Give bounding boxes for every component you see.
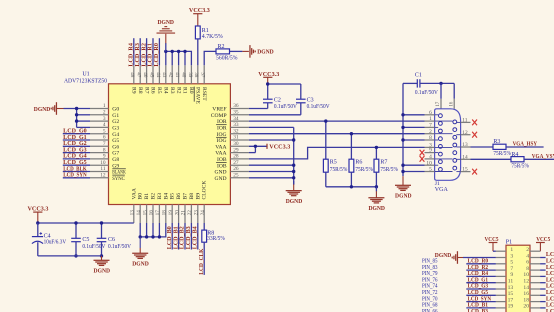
svg-text:IOR: IOR (217, 126, 227, 132)
svg-text:6: 6 (429, 110, 432, 116)
svg-text:RSET: RSET (201, 87, 207, 101)
pin 10 stub (G9) (90, 164, 109, 166)
svg-text:VAA: VAA (131, 188, 137, 199)
VGA pin 10 stub (425, 164, 435, 166)
ground DGND (chip right) (286, 190, 302, 192)
junction (158, 235, 161, 238)
resistor R4 (511, 157, 524, 162)
svg-text:IOG: IOG (217, 132, 227, 138)
svg-text:B8: B8 (189, 193, 195, 200)
svg-text:GND: GND (214, 176, 226, 182)
svg-text:PIN_85: PIN_85 (422, 259, 438, 265)
wire drop (146, 223, 148, 237)
svg-text:LCD_SYN: LCD_SYN (546, 290, 554, 296)
pin 33 stub (IOR) (230, 126, 249, 128)
wire ground to VGA pin (403, 164, 425, 166)
wire pin 45 net LCD_R1 (152, 38, 154, 65)
junction (tap) (350, 132, 353, 135)
svg-text:R5: R5 (330, 159, 337, 165)
wire ground to VGA pin (403, 114, 425, 116)
svg-text:0.1uF/50V: 0.1uF/50V (415, 90, 439, 96)
wire ground rail (right of chip) (293, 127, 295, 184)
svg-text:LCD_G2: LCD_G2 (546, 271, 554, 277)
wire ground B0-B4 (139, 223, 141, 237)
svg-text:16: 16 (149, 210, 155, 216)
svg-text:19: 19 (168, 210, 174, 216)
svg-text:7: 7 (429, 123, 432, 129)
svg-text:17: 17 (155, 210, 161, 216)
resistor R8 (203, 223, 205, 230)
pin 4 stub (G3) (90, 126, 109, 128)
wire ground bus pins 43-39 (166, 51, 192, 65)
wire DGND to P1 pin 3 (463, 257, 496, 259)
pin 1 stub (G0) (90, 108, 109, 110)
svg-text:2: 2 (526, 247, 529, 253)
svg-text:GND: GND (214, 170, 226, 176)
svg-text:R2: R2 (175, 87, 181, 94)
ground DGND (VGA) (395, 184, 411, 186)
junction (183, 50, 186, 53)
wire DGND to pin 1 (64, 108, 91, 110)
svg-text:G1: G1 (112, 113, 119, 119)
svg-text:3: 3 (103, 116, 106, 122)
svg-text:36: 36 (233, 103, 239, 109)
svg-text:LCD_R2: LCD_R2 (468, 265, 489, 271)
svg-text:75R/5%: 75R/5% (493, 151, 511, 157)
wire net LCD_R2 to P1 (466, 269, 496, 271)
wire VCC rail to C3 (268, 83, 301, 85)
svg-text:G0: G0 (112, 107, 119, 113)
svg-text:B6: B6 (176, 193, 182, 200)
svg-text:LCD_B0: LCD_B0 (546, 296, 554, 302)
wire net LCD_G4 to pin 9 (63, 158, 90, 160)
svg-text:R4: R4 (163, 87, 169, 94)
junction (100, 254, 103, 257)
wire pin 23 net LCD_B4 (197, 223, 199, 250)
junction (tap) (375, 146, 378, 149)
svg-text:LCD_B2: LCD_B2 (546, 303, 554, 309)
wire pin 44 net LCD_R0 (158, 38, 160, 65)
svg-text:LCD_G0: LCD_G0 (63, 129, 87, 135)
wire pin 19 net LCD_B0 (171, 223, 173, 250)
svg-text:1: 1 (510, 247, 513, 253)
junction (292, 176, 295, 179)
pin 30 stub (VAA) (230, 145, 249, 147)
svg-text:LCD_B3: LCD_B3 (186, 226, 192, 249)
pin 17 stub (B3) (158, 205, 160, 224)
capacitor C5 (75, 223, 77, 238)
ground DGND (under B pins) (132, 252, 148, 254)
pin 25 stub (GND) (230, 177, 249, 179)
junction (401, 164, 404, 167)
junction (171, 50, 174, 53)
svg-text:14: 14 (136, 210, 142, 216)
svg-text:B7: B7 (183, 193, 189, 200)
svg-text:R5: R5 (156, 87, 162, 94)
no-connect X (420, 150, 425, 156)
no-connect X (472, 132, 477, 138)
svg-text:46: 46 (142, 72, 148, 78)
svg-text:C2: C2 (274, 97, 281, 103)
capacitor C3 (296, 98, 306, 100)
wire VCC5 to P1 pin 2 (530, 250, 540, 252)
svg-text:17: 17 (508, 297, 514, 303)
svg-text:11: 11 (508, 279, 514, 285)
pin 5 stub (G4) (90, 133, 109, 135)
svg-text:6: 6 (526, 260, 529, 266)
pin 38 stub (PSAVE) (197, 65, 199, 84)
VGA pin holes (left column) (439, 114, 443, 118)
svg-text:13: 13 (462, 142, 468, 148)
pin 27 stub (IOB) (230, 164, 249, 166)
ground DGND (R5-R7) stem (375, 187, 377, 192)
svg-text:4: 4 (429, 154, 432, 160)
svg-text:LCD_G1: LCD_G1 (63, 135, 87, 141)
svg-text:G8: G8 (112, 157, 119, 163)
svg-text:LCD_R1: LCD_R1 (546, 252, 554, 258)
svg-text:0.1uF/50V: 0.1uF/50V (82, 244, 106, 250)
wire net LCD_BLK to pin 11 (63, 171, 90, 173)
wire pin 18 drop (140, 223, 166, 237)
svg-text:DGND: DGND (286, 199, 303, 205)
pin 29 stub (VAA) (230, 152, 249, 154)
svg-text:VCC3.3: VCC3.3 (269, 145, 290, 151)
svg-text:30: 30 (233, 141, 239, 147)
junction (74, 254, 77, 257)
svg-text:LCD_R0: LCD_R0 (468, 259, 489, 265)
svg-text:21: 21 (181, 210, 187, 216)
VGA pin 4 stub (425, 158, 435, 160)
pin 9 stub (G8) (90, 158, 109, 160)
svg-text:P1: P1 (506, 240, 512, 246)
svg-text:22: 22 (187, 210, 193, 216)
svg-text:45: 45 (148, 72, 154, 78)
resistor R3 (493, 144, 506, 149)
svg-text:11: 11 (100, 166, 105, 172)
junction (401, 113, 404, 116)
svg-text:5: 5 (510, 260, 513, 266)
svg-text:3: 3 (510, 253, 513, 259)
svg-text:13: 13 (130, 210, 136, 216)
wire pin 20 net LCD_B1 (178, 223, 180, 250)
svg-text:28: 28 (233, 154, 239, 160)
pin 18 stub (B4) (165, 205, 167, 224)
wire VGA pin 14 to R4 (471, 158, 512, 160)
pin 20 stub (B6) (178, 205, 180, 224)
svg-text:8: 8 (103, 147, 106, 153)
svg-text:18: 18 (523, 297, 529, 303)
pin 40 stub (R1) (184, 65, 186, 84)
wire bottom ground rail (38, 255, 102, 257)
svg-text:DGND: DGND (132, 262, 149, 268)
wire drop to pin stub (165, 51, 167, 65)
junction (401, 170, 404, 173)
pin 34 stub (IOR) (230, 120, 249, 122)
svg-text:LCD_G4: LCD_G4 (546, 277, 554, 283)
svg-text:5: 5 (103, 128, 106, 134)
junction (439, 82, 442, 85)
svg-text:27: 27 (233, 160, 239, 166)
wire pin 35 COMP to C3 (249, 114, 301, 116)
junction (75, 107, 78, 110)
wire drop (158, 223, 160, 237)
svg-text:44: 44 (155, 72, 161, 78)
svg-text:VREF: VREF (212, 107, 226, 113)
wire net LCD_G1 to P1 (466, 282, 496, 284)
svg-text:VGA_HSY: VGA_HSY (513, 142, 538, 148)
svg-text:9: 9 (429, 148, 432, 154)
ground DGND (chip right) stem (293, 181, 295, 185)
wire ground vertical pins 1-4 (76, 109, 78, 128)
svg-text:32: 32 (233, 128, 239, 134)
svg-text:LCD_G1: LCD_G1 (468, 277, 489, 283)
svg-text:B3: B3 (157, 193, 163, 200)
junction (375, 185, 378, 188)
svg-text:B5: B5 (170, 193, 176, 200)
ground DGND (VGA) stem (402, 176, 404, 185)
VGA pin 8 stub (425, 139, 435, 141)
wire net LCD_R4 to P1 (466, 275, 496, 277)
svg-text:4.7K/5%: 4.7K/5% (202, 34, 223, 40)
svg-text:PIN_74: PIN_74 (422, 284, 438, 290)
wire net LCD_SYN to P1 (466, 301, 496, 303)
wire VAA rail to pin 13 (38, 222, 134, 224)
wire pin 46 net LCD_R2 (146, 38, 148, 65)
wire net LCD_G5 to pin 10 (63, 164, 90, 166)
pin 15 stub (B1) (146, 205, 148, 224)
wire pin 47 net LCD_R3 (139, 38, 141, 65)
ground DGND (under C6) (94, 259, 110, 261)
junction (401, 126, 404, 129)
junction (292, 170, 295, 173)
VGA shield pin 16 (453, 83, 455, 98)
svg-text:R4: R4 (511, 152, 518, 158)
svg-text:LCD_R4: LCD_R4 (468, 271, 489, 277)
svg-text:19: 19 (508, 304, 514, 310)
svg-text:24: 24 (200, 210, 206, 216)
svg-text:R0: R0 (188, 87, 194, 94)
wire net LCD_B1 to P1 (466, 307, 496, 309)
svg-text:LCD_G5: LCD_G5 (63, 160, 87, 166)
svg-text:LCD_B1: LCD_B1 (173, 226, 179, 249)
capacitor C1 (403, 82, 417, 84)
svg-text:C1: C1 (415, 73, 422, 79)
svg-text:16: 16 (449, 101, 454, 106)
svg-text:560R/5%: 560R/5% (216, 55, 238, 61)
junction (75, 113, 78, 116)
svg-text:16: 16 (523, 291, 529, 297)
pin 39 stub (R0) (190, 65, 192, 84)
wire R4 to VGA_VSY (524, 158, 554, 160)
wire net LCD_G3 to P1 (466, 288, 496, 290)
pin 13 stub (VAA) (133, 205, 135, 224)
pin 22 stub (B8) (190, 205, 192, 224)
wire pin 31 to rail (249, 139, 294, 141)
no-connect X (472, 120, 477, 126)
wire VGA ground rail (402, 83, 404, 176)
svg-text:34: 34 (233, 116, 239, 122)
resistor R6 (350, 134, 352, 160)
svg-text:G6: G6 (112, 144, 119, 150)
svg-text:33R/5%: 33R/5% (207, 236, 225, 242)
svg-text:DGND: DGND (257, 50, 274, 56)
wire net LCD_G0 to pin 5 (63, 133, 90, 135)
ground DGND (under B pins) stem (139, 237, 141, 248)
svg-text:IOG: IOG (217, 138, 227, 144)
junction (266, 82, 269, 85)
VGA pin 2 stub (425, 133, 435, 135)
svg-text:R8: R8 (137, 87, 143, 94)
ground DGND (right of R2) stem (242, 50, 249, 52)
junction (tap) (324, 119, 327, 122)
capacitor C4 (electrolytic) (37, 223, 39, 237)
pin 48 stub (R9) (133, 65, 135, 84)
connector J1 VGA body (435, 109, 461, 181)
svg-text:LCD_BLK: LCD_BLK (546, 284, 554, 290)
svg-text:DGND: DGND (94, 269, 111, 275)
svg-text:C3: C3 (307, 97, 314, 103)
svg-text:37: 37 (200, 72, 206, 78)
svg-text:G2: G2 (112, 119, 119, 125)
svg-text:20: 20 (174, 210, 180, 216)
pin 16 stub (B2) (152, 205, 154, 224)
svg-text:47: 47 (136, 72, 142, 78)
wire net LCD_G4 from P1 (right) (530, 282, 540, 284)
pin 31 stub (IOG) (230, 139, 249, 141)
svg-text:0.1uF/50V: 0.1uF/50V (274, 104, 298, 110)
svg-text:0.1uF/50V: 0.1uF/50V (108, 244, 132, 250)
capacitor C6 (101, 223, 103, 238)
pin 6 stub (G5) (90, 139, 109, 141)
svg-text:B0: B0 (138, 193, 144, 200)
svg-text:LCD_BLK: LCD_BLK (63, 166, 87, 172)
wire VCC5 to P1 pin 1 (493, 250, 496, 252)
wire net LCD_B2 from P1 (right) (530, 307, 540, 309)
svg-text:DGND: DGND (368, 206, 385, 212)
pin 19 stub (B5) (171, 205, 173, 224)
svg-text:5: 5 (429, 167, 432, 173)
VGA shield pin 17 (440, 83, 442, 98)
svg-text:15: 15 (462, 167, 468, 173)
svg-text:75R/5%: 75R/5% (511, 163, 529, 169)
power VCC3.3 (VAA pins 29/30) (249, 152, 256, 154)
svg-text:VAA: VAA (215, 144, 226, 150)
svg-text:LCD_R2: LCD_R2 (141, 43, 147, 67)
wire to pin (77, 120, 90, 122)
svg-text:R9: R9 (131, 87, 137, 94)
wire net LCD_R3 from P1 (right) (530, 263, 540, 265)
pin 35 stub (COMP) (230, 114, 249, 116)
svg-text:G5: G5 (112, 138, 119, 144)
svg-text:10: 10 (426, 160, 432, 166)
svg-text:IOR: IOR (217, 119, 227, 125)
pin 42 stub (R3) (171, 65, 173, 84)
wire net LCD_B0 from P1 (right) (530, 301, 540, 303)
svg-text:PIN_83: PIN_83 (422, 265, 438, 271)
svg-text:6: 6 (103, 135, 106, 141)
svg-text:9: 9 (510, 272, 513, 278)
svg-text:8: 8 (429, 135, 432, 141)
svg-text:7: 7 (510, 266, 513, 272)
pin 45 stub (R6) (152, 65, 154, 84)
svg-text:PIN_72: PIN_72 (422, 290, 438, 296)
VGA pin 9 stub (425, 152, 435, 154)
svg-text:R1: R1 (202, 28, 209, 34)
svg-text:PIN_70: PIN_70 (422, 296, 438, 302)
VGA pin 5 stub (425, 171, 435, 173)
wire IOR pin 34 to VGA pin 1 (249, 120, 425, 122)
wire IOB pin 28 to VGA pin 3 (jog) (249, 147, 425, 159)
svg-text:33: 33 (233, 122, 239, 128)
wire pin 36 VREF to C2 (249, 108, 268, 110)
wire net LCD_G1 to pin 6 (63, 139, 90, 141)
pin 23 stub (B9) (197, 205, 199, 224)
junction (401, 138, 404, 141)
wire ground to VGA pin (403, 171, 425, 173)
svg-text:15: 15 (142, 210, 148, 216)
junction (36, 221, 39, 224)
VGA pin 15 stub (456, 171, 460, 173)
pin 11 stub (BLANK) (90, 171, 109, 173)
svg-text:40: 40 (180, 72, 186, 78)
pin 41 stub (R2) (178, 65, 180, 84)
svg-text:LCD_SYN: LCD_SYN (468, 296, 492, 302)
junction (75, 119, 78, 122)
resistor R2 (216, 49, 230, 54)
svg-text:U1: U1 (82, 72, 89, 78)
junction (74, 221, 77, 224)
svg-text:LCD_R1: LCD_R1 (148, 43, 154, 67)
wire ground to VGA pin (403, 126, 425, 128)
svg-text:PIN_79: PIN_79 (422, 271, 438, 277)
svg-text:C5: C5 (82, 237, 89, 243)
junction (350, 185, 353, 188)
svg-text:LCD_G4: LCD_G4 (63, 154, 87, 160)
VGA pin 7 stub (425, 126, 435, 128)
svg-text:12: 12 (100, 173, 106, 179)
svg-text:1: 1 (103, 103, 106, 109)
VGA pin 14 stub (456, 158, 460, 160)
svg-text:LCD_B1: LCD_B1 (468, 303, 489, 309)
svg-text:B4: B4 (163, 193, 169, 200)
svg-text:LCD_G2: LCD_G2 (63, 141, 87, 147)
svg-text:R1: R1 (182, 87, 188, 94)
pin 37 stub (RSET) (203, 65, 205, 84)
svg-text:14: 14 (523, 285, 529, 291)
wire net LCD_SYN to pin 12 (63, 177, 90, 179)
pin 3 stub (G2) (90, 120, 109, 122)
junction (292, 138, 295, 141)
VGA pin 13 stub (456, 146, 460, 148)
C4 polarity + (40, 233, 43, 235)
svg-text:G3: G3 (112, 126, 119, 132)
no-connect X (420, 156, 425, 162)
pin 8 stub (G7) (90, 152, 109, 154)
wire ground to VGA pin (403, 139, 425, 141)
svg-text:25: 25 (233, 173, 239, 179)
capacitor C2 (263, 98, 273, 100)
wire drop to pin stub (184, 51, 186, 65)
svg-text:LCD_R0: LCD_R0 (154, 43, 160, 67)
wire pin 37 RSET to R2 (204, 51, 216, 65)
wire drop (152, 223, 154, 237)
wire net LCD_G2 from P1 (right) (530, 275, 540, 277)
svg-text:R6: R6 (150, 87, 156, 94)
resistor R5 (325, 121, 327, 159)
svg-text:15: 15 (508, 291, 514, 297)
pin 7 stub (G6) (90, 145, 109, 147)
svg-text:PSAVE: PSAVE (195, 87, 201, 105)
